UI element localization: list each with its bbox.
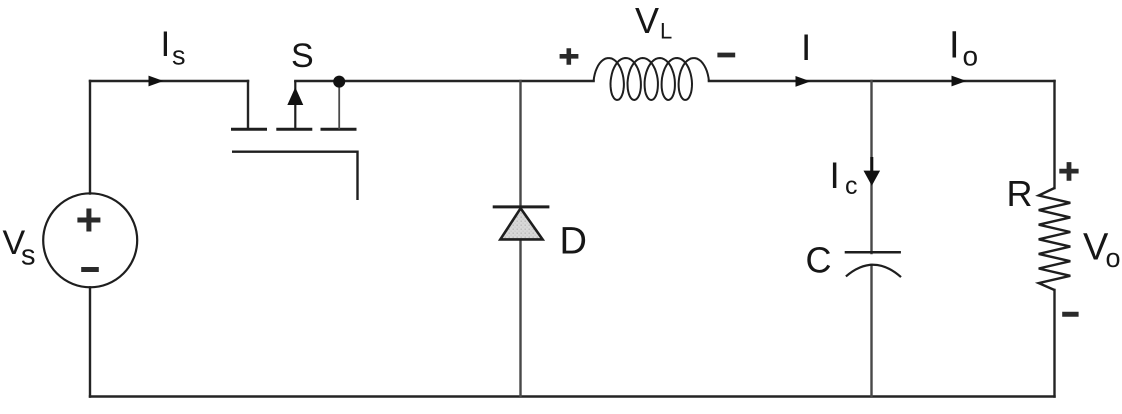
voltage source VS circle xyxy=(43,193,137,287)
inductor L coil xyxy=(594,58,709,100)
svg-text:I: I xyxy=(801,27,811,68)
current arrow I on rail after inductor xyxy=(796,76,811,87)
wire top rail from inductor to right corner xyxy=(709,80,1055,82)
transistor channel bar right (body) xyxy=(321,128,357,131)
label - (inductor right polarity) xyxy=(717,53,735,58)
wire resistor bottom to bottom rail xyxy=(1053,290,1055,397)
wire capacitor branch upper xyxy=(870,81,872,253)
wire source bottom to bottom rail xyxy=(89,287,91,396)
transistor body stub up to junction xyxy=(338,82,340,129)
capacitor C top plate xyxy=(845,251,901,254)
svg-text:D: D xyxy=(560,221,587,263)
svg-text:S: S xyxy=(291,37,314,75)
wire switch drain stub down xyxy=(247,81,249,127)
wire diode branch vertical xyxy=(519,81,521,397)
svg-text:I: I xyxy=(161,25,171,64)
svg-text:c: c xyxy=(845,172,858,200)
junction dot node at switch output xyxy=(333,76,345,88)
current arrow Io on rail to load xyxy=(952,76,967,87)
svg-text:o: o xyxy=(963,41,979,72)
svg-text:s: s xyxy=(172,41,186,71)
label + (inductor left polarity) xyxy=(560,48,579,65)
diode D triangle (anode pointing up) xyxy=(500,208,542,239)
transistor Q1 switch S xyxy=(231,81,358,200)
svg-text:C: C xyxy=(806,240,832,281)
wire capacitor branch lower xyxy=(870,265,872,397)
diode D cathode bar xyxy=(493,205,550,208)
wire top-left horizontal from source to switch xyxy=(90,80,248,82)
label - (load polarity) xyxy=(1062,312,1078,317)
current arrow Ic pointing down into capacitor xyxy=(870,157,873,173)
label + (load polarity) xyxy=(1059,162,1078,181)
svg-text:o: o xyxy=(1106,243,1121,273)
transistor channel bar left (drain) xyxy=(231,128,267,131)
transistor gate plate and lead xyxy=(232,152,358,200)
transistor source stub with wire up xyxy=(294,81,296,129)
resistor R zigzag xyxy=(1039,188,1071,290)
wire left vertical down to source top xyxy=(89,81,91,194)
svg-text:V: V xyxy=(635,0,659,41)
transistor channel bar middle (source) xyxy=(276,128,312,131)
svg-text:s: s xyxy=(21,240,36,272)
svg-text:I: I xyxy=(949,25,960,67)
voltage source plus sign xyxy=(77,209,100,232)
capacitor C bottom curved plate xyxy=(846,265,901,277)
svg-text:I: I xyxy=(830,155,840,196)
transistor source arrow pointing up xyxy=(288,89,302,105)
wire right vertical to resistor top xyxy=(1053,81,1055,188)
svg-text:R: R xyxy=(1007,173,1033,214)
wire top rail from switch to inductor xyxy=(295,80,593,82)
svg-text:L: L xyxy=(660,19,672,44)
wire bottom rail xyxy=(90,395,1055,397)
voltage source minus sign xyxy=(81,267,99,272)
current arrow Is on top-left wire xyxy=(149,76,164,87)
